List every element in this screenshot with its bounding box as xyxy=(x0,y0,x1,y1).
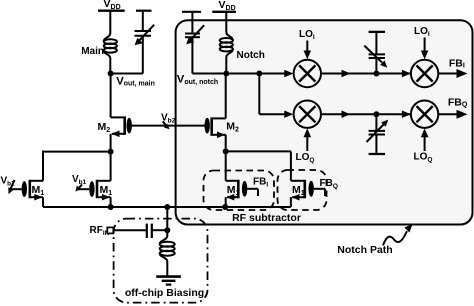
svg-text:FBI: FBI xyxy=(449,57,465,69)
inductor Main xyxy=(104,11,117,74)
mixer I1 xyxy=(294,60,321,87)
Notch Path arrow xyxy=(383,224,413,245)
node subtractor summing xyxy=(223,148,229,154)
wire capacitor to bias node xyxy=(152,229,167,231)
wire M1 drain rail xyxy=(43,151,111,153)
svg-text:M1: M1 xyxy=(32,184,45,197)
svg-text:FBI: FBI xyxy=(253,177,268,189)
wire summing node to FBQ branch xyxy=(226,150,291,152)
wire M2 source down to M1 drain node xyxy=(110,134,112,152)
wire FBQ branch down to subtractor M1 drain xyxy=(290,151,292,180)
svg-text:M2: M2 xyxy=(98,121,111,134)
VDD supply (notch) xyxy=(212,0,236,12)
off-chip biasing box xyxy=(114,219,208,303)
Vb2 bias label xyxy=(161,112,176,129)
Vout,notch label xyxy=(177,74,218,86)
varactor (notch tank) xyxy=(182,12,204,74)
LOI drive (mixer I2) xyxy=(414,26,430,60)
mixer Q1 xyxy=(294,101,321,128)
transistor M1 (right input device) xyxy=(89,152,112,207)
node source rail / subtractor source xyxy=(222,204,228,210)
RF subtractor dashed box I xyxy=(204,171,275,211)
Notch label xyxy=(237,50,265,61)
Main label xyxy=(81,46,104,57)
capacitor (coupling, off-chip) xyxy=(147,224,152,238)
FBQ gate tap (subtractor Q) xyxy=(314,178,338,196)
wire RFin to capacitor xyxy=(113,229,146,231)
LOI drive (mixer I1) xyxy=(299,29,315,59)
wire Vout,notch rail xyxy=(192,70,293,77)
svg-text:VDD: VDD xyxy=(219,0,236,12)
inductor (off-chip bias choke) xyxy=(160,230,175,276)
svg-text:Notch: Notch xyxy=(237,50,265,61)
RFin terminal xyxy=(90,225,114,237)
FBI output xyxy=(438,57,467,78)
wire M2 (notch) source down xyxy=(225,135,227,152)
wire mixer Q1 to Q2 xyxy=(321,111,411,118)
FBQ output xyxy=(438,96,468,118)
transistor M2 (notch cascode) xyxy=(205,117,240,138)
wire Vout,main down to M2 drain xyxy=(110,74,112,118)
LOQ drive (mixer Q1) xyxy=(296,128,315,163)
Vb1 bias label (left) xyxy=(1,176,22,195)
transistor M1 (left input device) xyxy=(22,151,45,207)
wire M2 (notch) drain xyxy=(225,74,227,119)
RF subtractor dashed box Q xyxy=(278,170,327,210)
VDD supply (main) xyxy=(98,0,125,11)
Vb1 bias label (right) xyxy=(72,174,89,192)
transistor M2 (main cascode) xyxy=(98,116,132,137)
svg-text:Notch Path: Notch Path xyxy=(337,244,392,256)
RF subtractor label xyxy=(232,212,301,224)
transistor M1 (subtractor Q) xyxy=(291,180,314,207)
wire common source rail xyxy=(43,206,291,208)
ground xyxy=(156,277,181,285)
varactor (IF filter I) xyxy=(364,32,387,74)
transistor M1 (subtractor I) xyxy=(226,180,248,207)
mixer Q2 xyxy=(411,101,438,128)
svg-text:Vout, main: Vout, main xyxy=(116,76,155,88)
wire varactor to Vout,main node xyxy=(111,73,143,75)
wire notch rail down to Q mixer row xyxy=(259,74,293,118)
Notch Path label xyxy=(337,244,392,256)
node IF filter Q xyxy=(373,111,379,117)
svg-text:off-chip Biasing: off-chip Biasing xyxy=(125,287,204,299)
off-chip Biasing label xyxy=(125,287,204,299)
inductor Notch xyxy=(220,12,233,74)
svg-text:VDD: VDD xyxy=(104,0,121,11)
node source rail / bias tap xyxy=(164,204,170,210)
node source rail / main line xyxy=(108,204,114,210)
svg-text:Vb1: Vb1 xyxy=(72,174,87,186)
node IF filter I xyxy=(373,71,379,77)
svg-text:Main: Main xyxy=(81,46,104,57)
svg-text:M1: M1 xyxy=(100,184,113,197)
notch path enclosure box xyxy=(176,20,473,224)
node notch rail branch to Q row xyxy=(256,71,262,77)
FBI gate tap (subtractor I) xyxy=(247,177,268,197)
LOQ drive (mixer Q2) xyxy=(414,128,433,163)
varactor (IF filter Q) xyxy=(367,114,389,154)
node M1 drains / M2 source xyxy=(108,149,114,155)
wire bias tap down xyxy=(166,207,168,230)
gate wire Vb2 (connects both M2 gates) xyxy=(132,125,205,127)
mixer I2 xyxy=(411,60,438,87)
node Vout,main xyxy=(108,71,155,88)
wire summing node down to subtractor M1 drain xyxy=(225,151,227,180)
svg-text:RF subtractor: RF subtractor xyxy=(232,212,301,224)
wire mixer I1 to I2 xyxy=(321,70,411,77)
node notch tank / M2 drain xyxy=(223,71,229,77)
svg-text:LOI: LOI xyxy=(299,29,315,41)
varactor (main tank) xyxy=(135,11,155,74)
svg-text:LOI: LOI xyxy=(414,26,430,38)
node bias network xyxy=(164,227,170,233)
